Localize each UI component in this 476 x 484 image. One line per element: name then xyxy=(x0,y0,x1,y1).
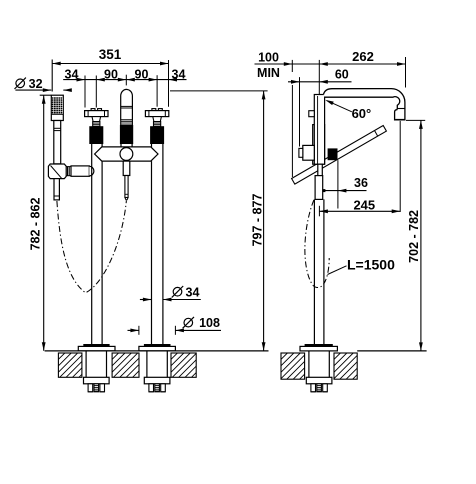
svg-text:32: 32 xyxy=(29,77,43,91)
dimension chain 34 90 90 34 xyxy=(63,60,186,108)
svg-text:245: 245 xyxy=(353,198,375,213)
svg-text:782 - 862: 782 - 862 xyxy=(28,198,42,251)
vertical dimension 702-782 xyxy=(406,120,425,351)
handles side view xyxy=(299,111,314,161)
svg-text:36: 36 xyxy=(354,176,368,190)
dimension 60 xyxy=(288,68,352,147)
left leg pipe front view xyxy=(92,144,102,344)
dimension diameter 34 leg pipe xyxy=(140,285,201,301)
left cross handle xyxy=(85,109,108,144)
vertical dimension 797-877 xyxy=(170,91,268,351)
left floor flange xyxy=(78,344,115,351)
riser column side view xyxy=(313,95,325,165)
label L=1500 hose length xyxy=(328,257,396,275)
dimension diameter 108 flange xyxy=(128,316,222,335)
hand shower with knurled grip, elbow and tail xyxy=(48,95,66,200)
side floor hatch block E xyxy=(308,353,379,379)
dimension 351 overall width with extension lines xyxy=(52,47,168,92)
side view under-floor connection xyxy=(306,351,332,392)
svg-text:MIN: MIN xyxy=(257,66,280,80)
svg-text:34: 34 xyxy=(186,285,200,299)
right cross handle xyxy=(145,109,168,144)
side floor hatch block D xyxy=(255,353,326,379)
dimension 245 xyxy=(319,121,400,216)
side view floor flange xyxy=(300,344,337,351)
svg-text:60°: 60° xyxy=(352,106,372,121)
riser lower fittings and supply pipe xyxy=(314,164,324,344)
svg-text:797 - 877: 797 - 877 xyxy=(251,194,265,247)
central spout column front view xyxy=(120,89,133,146)
dimension 36 xyxy=(322,160,368,208)
svg-text:34: 34 xyxy=(172,67,186,81)
svg-text:34: 34 xyxy=(65,67,79,81)
floor hatch block B xyxy=(88,353,157,377)
svg-text:90: 90 xyxy=(104,67,118,81)
hand shower holder block xyxy=(328,148,338,160)
svg-text:60: 60 xyxy=(335,68,349,82)
diverter hub circle xyxy=(120,148,133,161)
svg-text:262: 262 xyxy=(352,49,374,64)
right leg under-floor connection xyxy=(144,351,170,392)
right leg pipe front view xyxy=(152,144,163,344)
right floor flange xyxy=(139,344,176,351)
spout arm and outlet side view xyxy=(324,89,405,121)
hand shower holder arm xyxy=(66,166,94,176)
hand shower hose loop side view xyxy=(305,200,329,288)
floor line xyxy=(45,350,269,352)
svg-text:351: 351 xyxy=(99,47,122,62)
svg-text:L=1500: L=1500 xyxy=(347,257,395,273)
svg-text:108: 108 xyxy=(199,316,220,330)
vertical dimension 782-862 xyxy=(28,95,51,351)
manifold hexagonal body xyxy=(95,147,158,161)
side view floor line xyxy=(357,350,426,352)
hand shower hose front view xyxy=(57,201,127,293)
dimension 100 MIN with extension to hand shower tip xyxy=(255,50,320,177)
hand shower diagonal at 60 deg side view xyxy=(292,126,387,185)
label 60 degrees with leader arrow xyxy=(325,100,371,121)
floor hatch block A xyxy=(34,353,103,377)
hose outlet stem below manifold xyxy=(123,161,130,200)
svg-text:702 - 782: 702 - 782 xyxy=(407,210,421,263)
svg-text:90: 90 xyxy=(135,67,149,81)
svg-text:100: 100 xyxy=(258,50,279,64)
dimension diameter 32 hand shower xyxy=(15,77,72,92)
floor hatch block C xyxy=(147,353,216,377)
left leg under-floor connection xyxy=(84,351,110,392)
dimension 262 spout reach xyxy=(319,49,405,95)
